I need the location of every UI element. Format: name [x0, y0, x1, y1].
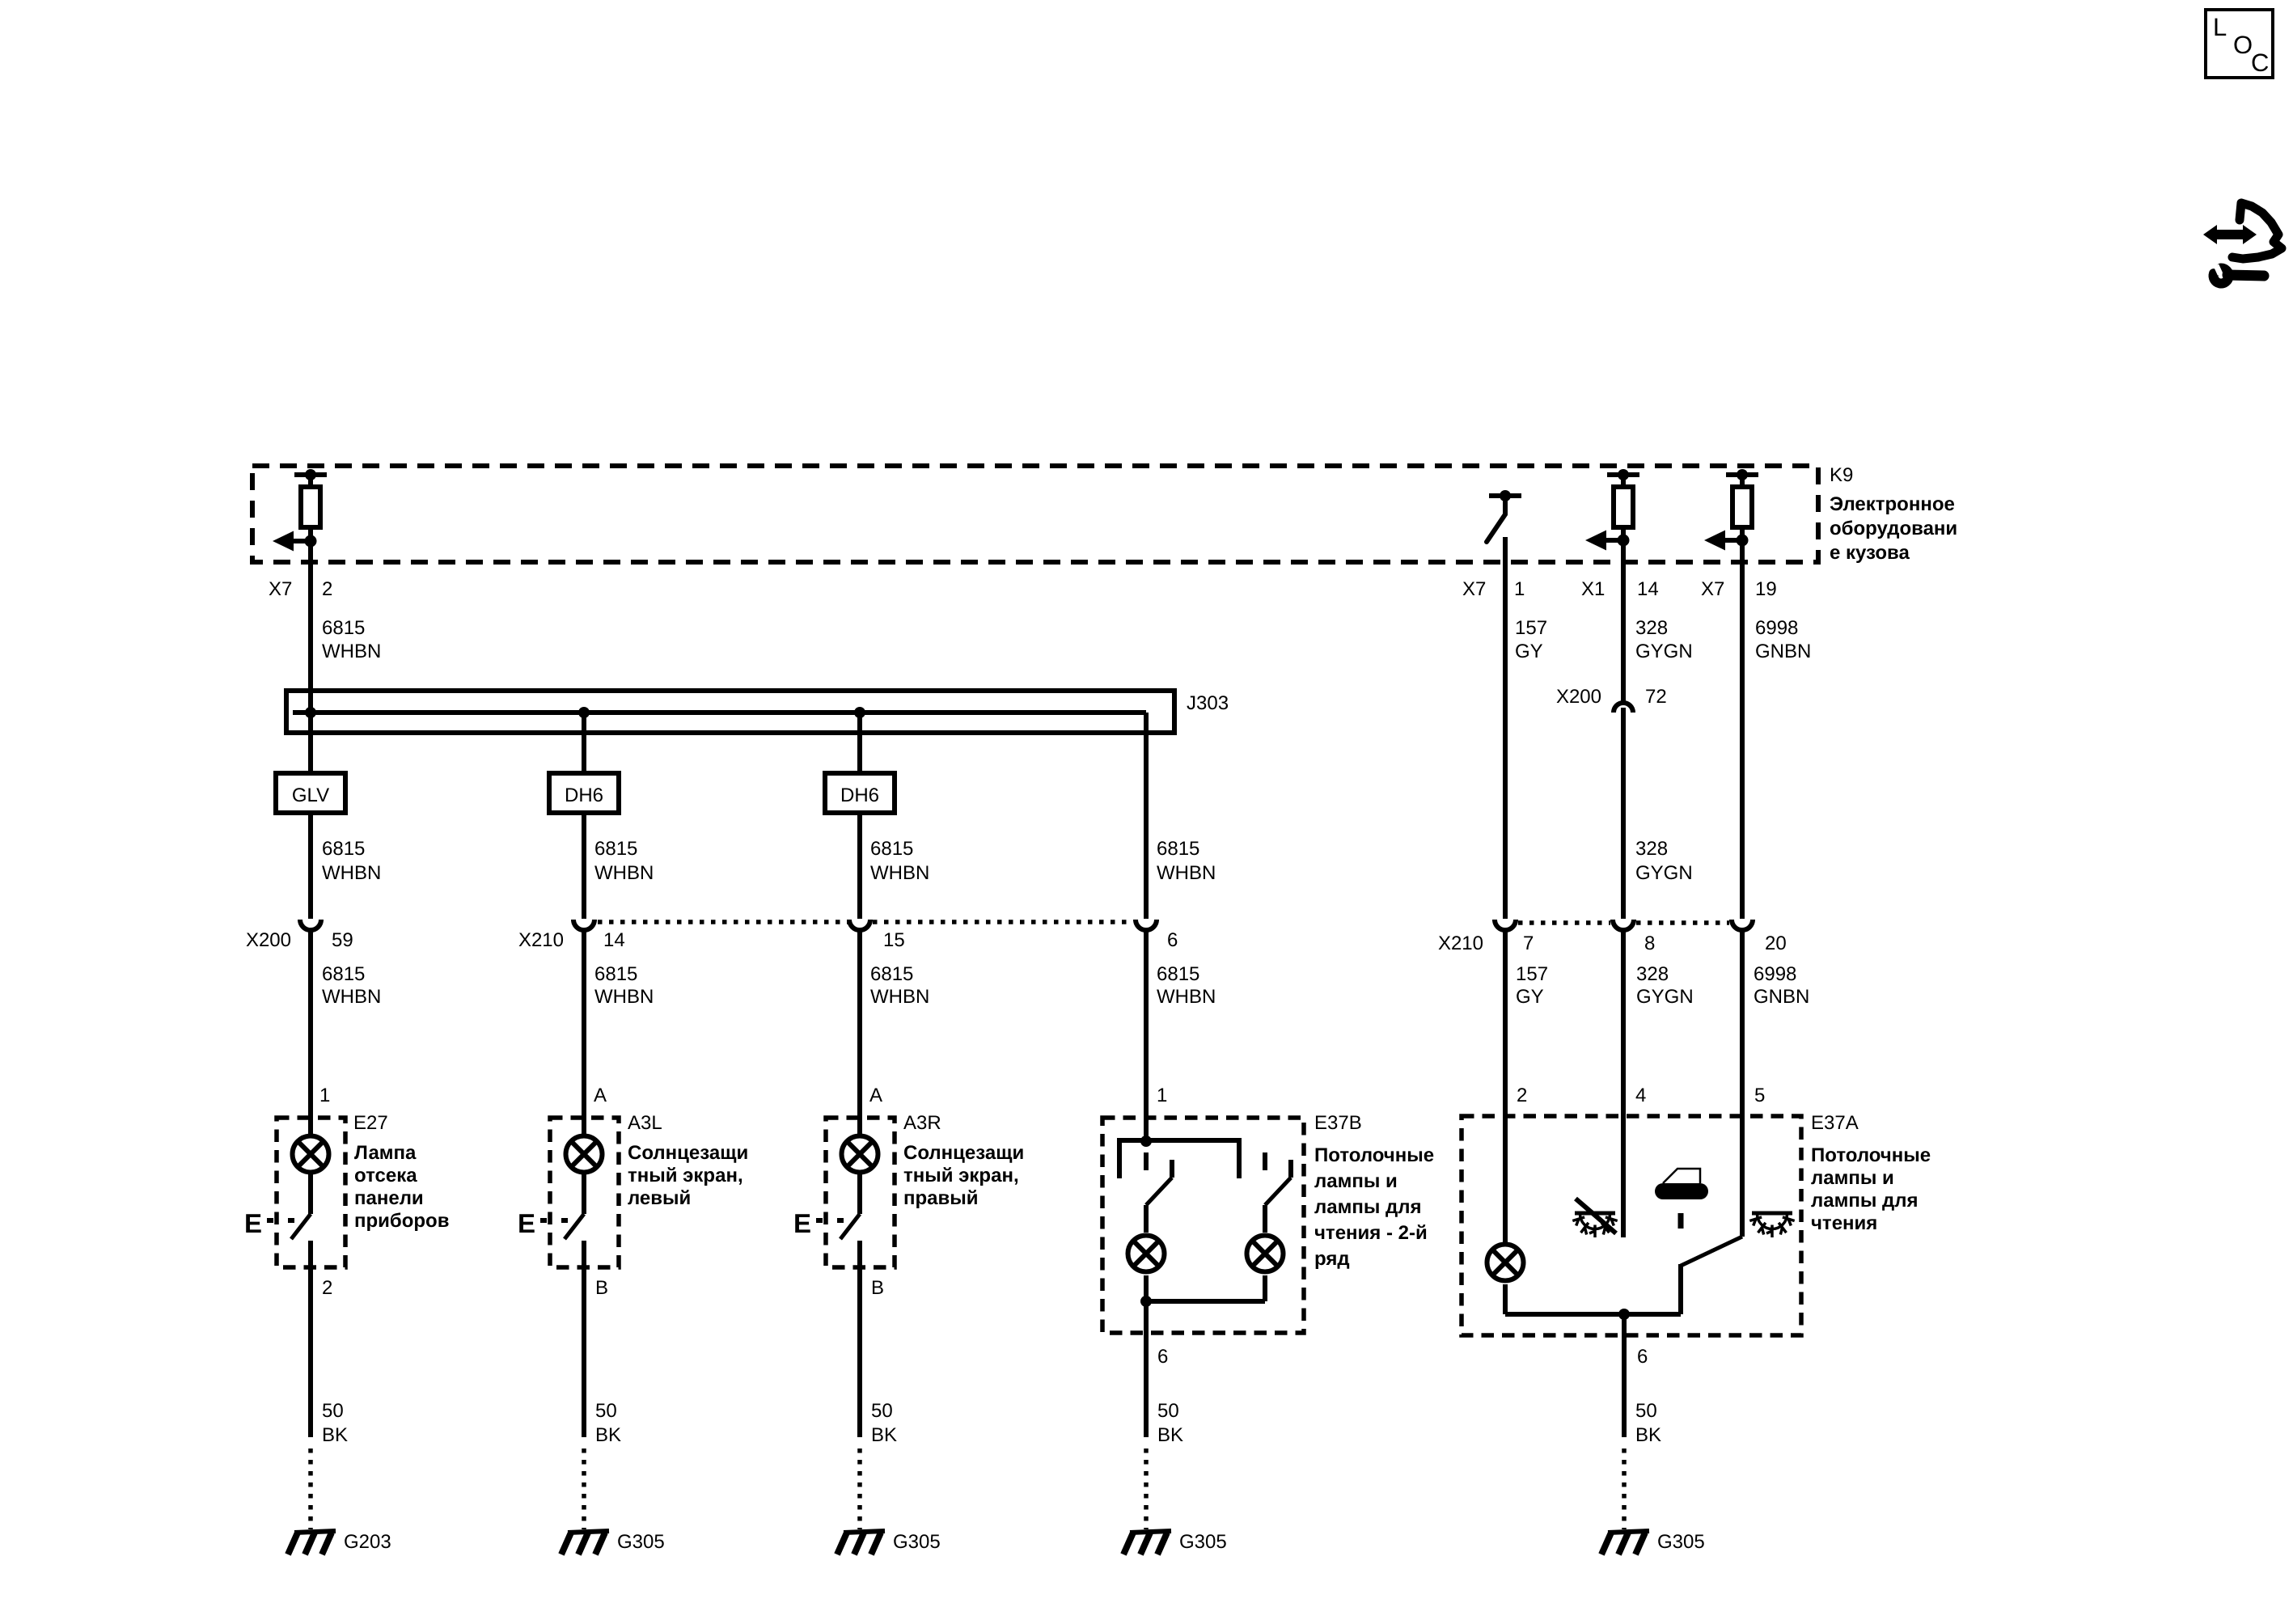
svg-text:C: C — [2251, 49, 2269, 77]
svg-text:6815: 6815 — [1157, 838, 1199, 860]
svg-text:6815: 6815 — [322, 838, 365, 860]
svg-text:B: B — [595, 1277, 608, 1299]
svg-text:X1: X1 — [1581, 578, 1605, 600]
svg-text:E37A: E37A — [1811, 1112, 1859, 1134]
svg-text:Потолочные: Потолочные — [1811, 1144, 1931, 1166]
svg-text:20: 20 — [1765, 933, 1787, 954]
svg-text:A: A — [869, 1085, 882, 1106]
svg-text:WHBN: WHBN — [870, 986, 929, 1008]
svg-text:G305: G305 — [893, 1531, 941, 1553]
svg-text:E37B: E37B — [1314, 1112, 1362, 1134]
svg-text:DH6: DH6 — [565, 785, 603, 806]
svg-text:тный экран,: тный экран, — [903, 1165, 1019, 1186]
svg-text:X7: X7 — [269, 578, 292, 600]
svg-text:328: 328 — [1635, 617, 1668, 639]
svg-text:15: 15 — [883, 929, 905, 951]
svg-text:GY: GY — [1515, 641, 1543, 662]
svg-text:G203: G203 — [344, 1531, 391, 1553]
svg-text:L: L — [2213, 13, 2227, 41]
svg-text:50: 50 — [871, 1400, 893, 1422]
svg-text:WHBN: WHBN — [594, 862, 654, 884]
svg-text:G305: G305 — [1657, 1531, 1705, 1553]
svg-text:Электронное: Электронное — [1830, 493, 1955, 515]
svg-text:1: 1 — [319, 1085, 330, 1106]
svg-text:50: 50 — [1635, 1400, 1657, 1422]
svg-text:GNBN: GNBN — [1754, 986, 1809, 1008]
svg-text:6815: 6815 — [870, 963, 913, 985]
svg-text:2: 2 — [322, 578, 332, 600]
svg-text:BK: BK — [871, 1424, 897, 1446]
svg-text:14: 14 — [1637, 578, 1659, 600]
svg-text:лампы и: лампы и — [1314, 1170, 1398, 1192]
svg-text:8: 8 — [1644, 933, 1655, 954]
svg-text:6: 6 — [1157, 1346, 1168, 1368]
svg-text:6: 6 — [1167, 929, 1178, 951]
svg-text:328: 328 — [1635, 838, 1668, 860]
svg-text:2: 2 — [1517, 1085, 1527, 1106]
svg-text:е кузова: е кузова — [1830, 542, 1910, 564]
svg-text:A: A — [594, 1085, 607, 1106]
svg-text:J303: J303 — [1187, 692, 1229, 714]
svg-text:6815: 6815 — [1157, 963, 1199, 985]
svg-text:157: 157 — [1516, 963, 1548, 985]
svg-text:чтения - 2-й: чтения - 2-й — [1314, 1222, 1428, 1244]
svg-text:WHBN: WHBN — [1157, 986, 1216, 1008]
svg-text:BK: BK — [1635, 1424, 1661, 1446]
svg-text:328: 328 — [1636, 963, 1669, 985]
svg-text:50: 50 — [322, 1400, 344, 1422]
svg-text:оборудовани: оборудовани — [1830, 518, 1957, 539]
svg-text:50: 50 — [1157, 1400, 1179, 1422]
svg-text:1: 1 — [1514, 578, 1525, 600]
svg-text:лампы и: лампы и — [1811, 1167, 1894, 1189]
svg-text:DH6: DH6 — [840, 785, 879, 806]
svg-text:приборов: приборов — [354, 1210, 449, 1232]
svg-text:Потолочные: Потолочные — [1314, 1144, 1434, 1166]
svg-text:E: E — [244, 1208, 262, 1238]
svg-text:BK: BK — [322, 1424, 348, 1446]
svg-text:G305: G305 — [1179, 1531, 1227, 1553]
svg-text:O: O — [2233, 31, 2253, 59]
svg-text:WHBN: WHBN — [322, 641, 381, 662]
svg-text:2: 2 — [322, 1277, 332, 1299]
svg-text:6815: 6815 — [594, 838, 637, 860]
svg-text:правый: правый — [903, 1187, 979, 1209]
svg-text:чтения: чтения — [1811, 1212, 1877, 1234]
svg-text:E: E — [793, 1208, 811, 1238]
svg-text:6815: 6815 — [870, 838, 913, 860]
svg-text:WHBN: WHBN — [1157, 862, 1216, 884]
svg-text:6: 6 — [1637, 1346, 1648, 1368]
svg-text:Солнцезащи: Солнцезащи — [903, 1142, 1024, 1164]
svg-text:ряд: ряд — [1314, 1248, 1350, 1270]
svg-text:X7: X7 — [1701, 578, 1724, 600]
svg-text:BK: BK — [595, 1424, 621, 1446]
svg-text:GYGN: GYGN — [1635, 641, 1693, 662]
svg-text:E: E — [518, 1208, 535, 1238]
svg-text:B: B — [871, 1277, 884, 1299]
svg-text:Лампа: Лампа — [354, 1142, 417, 1164]
svg-text:5: 5 — [1754, 1085, 1765, 1106]
svg-text:72: 72 — [1645, 686, 1667, 708]
svg-text:E27: E27 — [353, 1112, 388, 1134]
svg-text:GYGN: GYGN — [1635, 862, 1693, 884]
svg-text:1: 1 — [1157, 1085, 1167, 1106]
svg-text:6998: 6998 — [1755, 617, 1798, 639]
svg-text:GY: GY — [1516, 986, 1544, 1008]
svg-text:левый: левый — [628, 1187, 691, 1209]
svg-text:GYGN: GYGN — [1636, 986, 1694, 1008]
svg-text:G305: G305 — [617, 1531, 665, 1553]
svg-text:отсека: отсека — [354, 1165, 417, 1186]
svg-text:X200: X200 — [246, 929, 291, 951]
svg-text:19: 19 — [1755, 578, 1777, 600]
svg-text:лампы для: лампы для — [1811, 1190, 1919, 1212]
svg-text:14: 14 — [603, 929, 625, 951]
svg-text:K9: K9 — [1830, 464, 1853, 486]
svg-text:6998: 6998 — [1754, 963, 1796, 985]
svg-text:Солнцезащи: Солнцезащи — [628, 1142, 748, 1164]
svg-text:6815: 6815 — [594, 963, 637, 985]
svg-text:X210: X210 — [518, 929, 564, 951]
svg-text:50: 50 — [595, 1400, 617, 1422]
svg-text:лампы для: лампы для — [1314, 1196, 1422, 1218]
svg-text:7: 7 — [1523, 933, 1534, 954]
svg-text:X7: X7 — [1462, 578, 1486, 600]
svg-text:4: 4 — [1635, 1085, 1646, 1106]
svg-text:GLV: GLV — [292, 785, 329, 806]
svg-text:WHBN: WHBN — [870, 862, 929, 884]
svg-text:BK: BK — [1157, 1424, 1183, 1446]
svg-text:GNBN: GNBN — [1755, 641, 1811, 662]
svg-text:157: 157 — [1515, 617, 1547, 639]
svg-text:панели: панели — [354, 1187, 424, 1209]
svg-text:WHBN: WHBN — [322, 862, 381, 884]
svg-text:WHBN: WHBN — [594, 986, 654, 1008]
svg-text:59: 59 — [332, 929, 353, 951]
svg-text:6815: 6815 — [322, 963, 365, 985]
svg-text:A3R: A3R — [903, 1112, 941, 1134]
svg-text:A3L: A3L — [628, 1112, 662, 1134]
svg-text:тный экран,: тный экран, — [628, 1165, 743, 1186]
svg-text:X210: X210 — [1438, 933, 1483, 954]
svg-text:WHBN: WHBN — [322, 986, 381, 1008]
svg-text:6815: 6815 — [322, 617, 365, 639]
svg-text:X200: X200 — [1556, 686, 1601, 708]
